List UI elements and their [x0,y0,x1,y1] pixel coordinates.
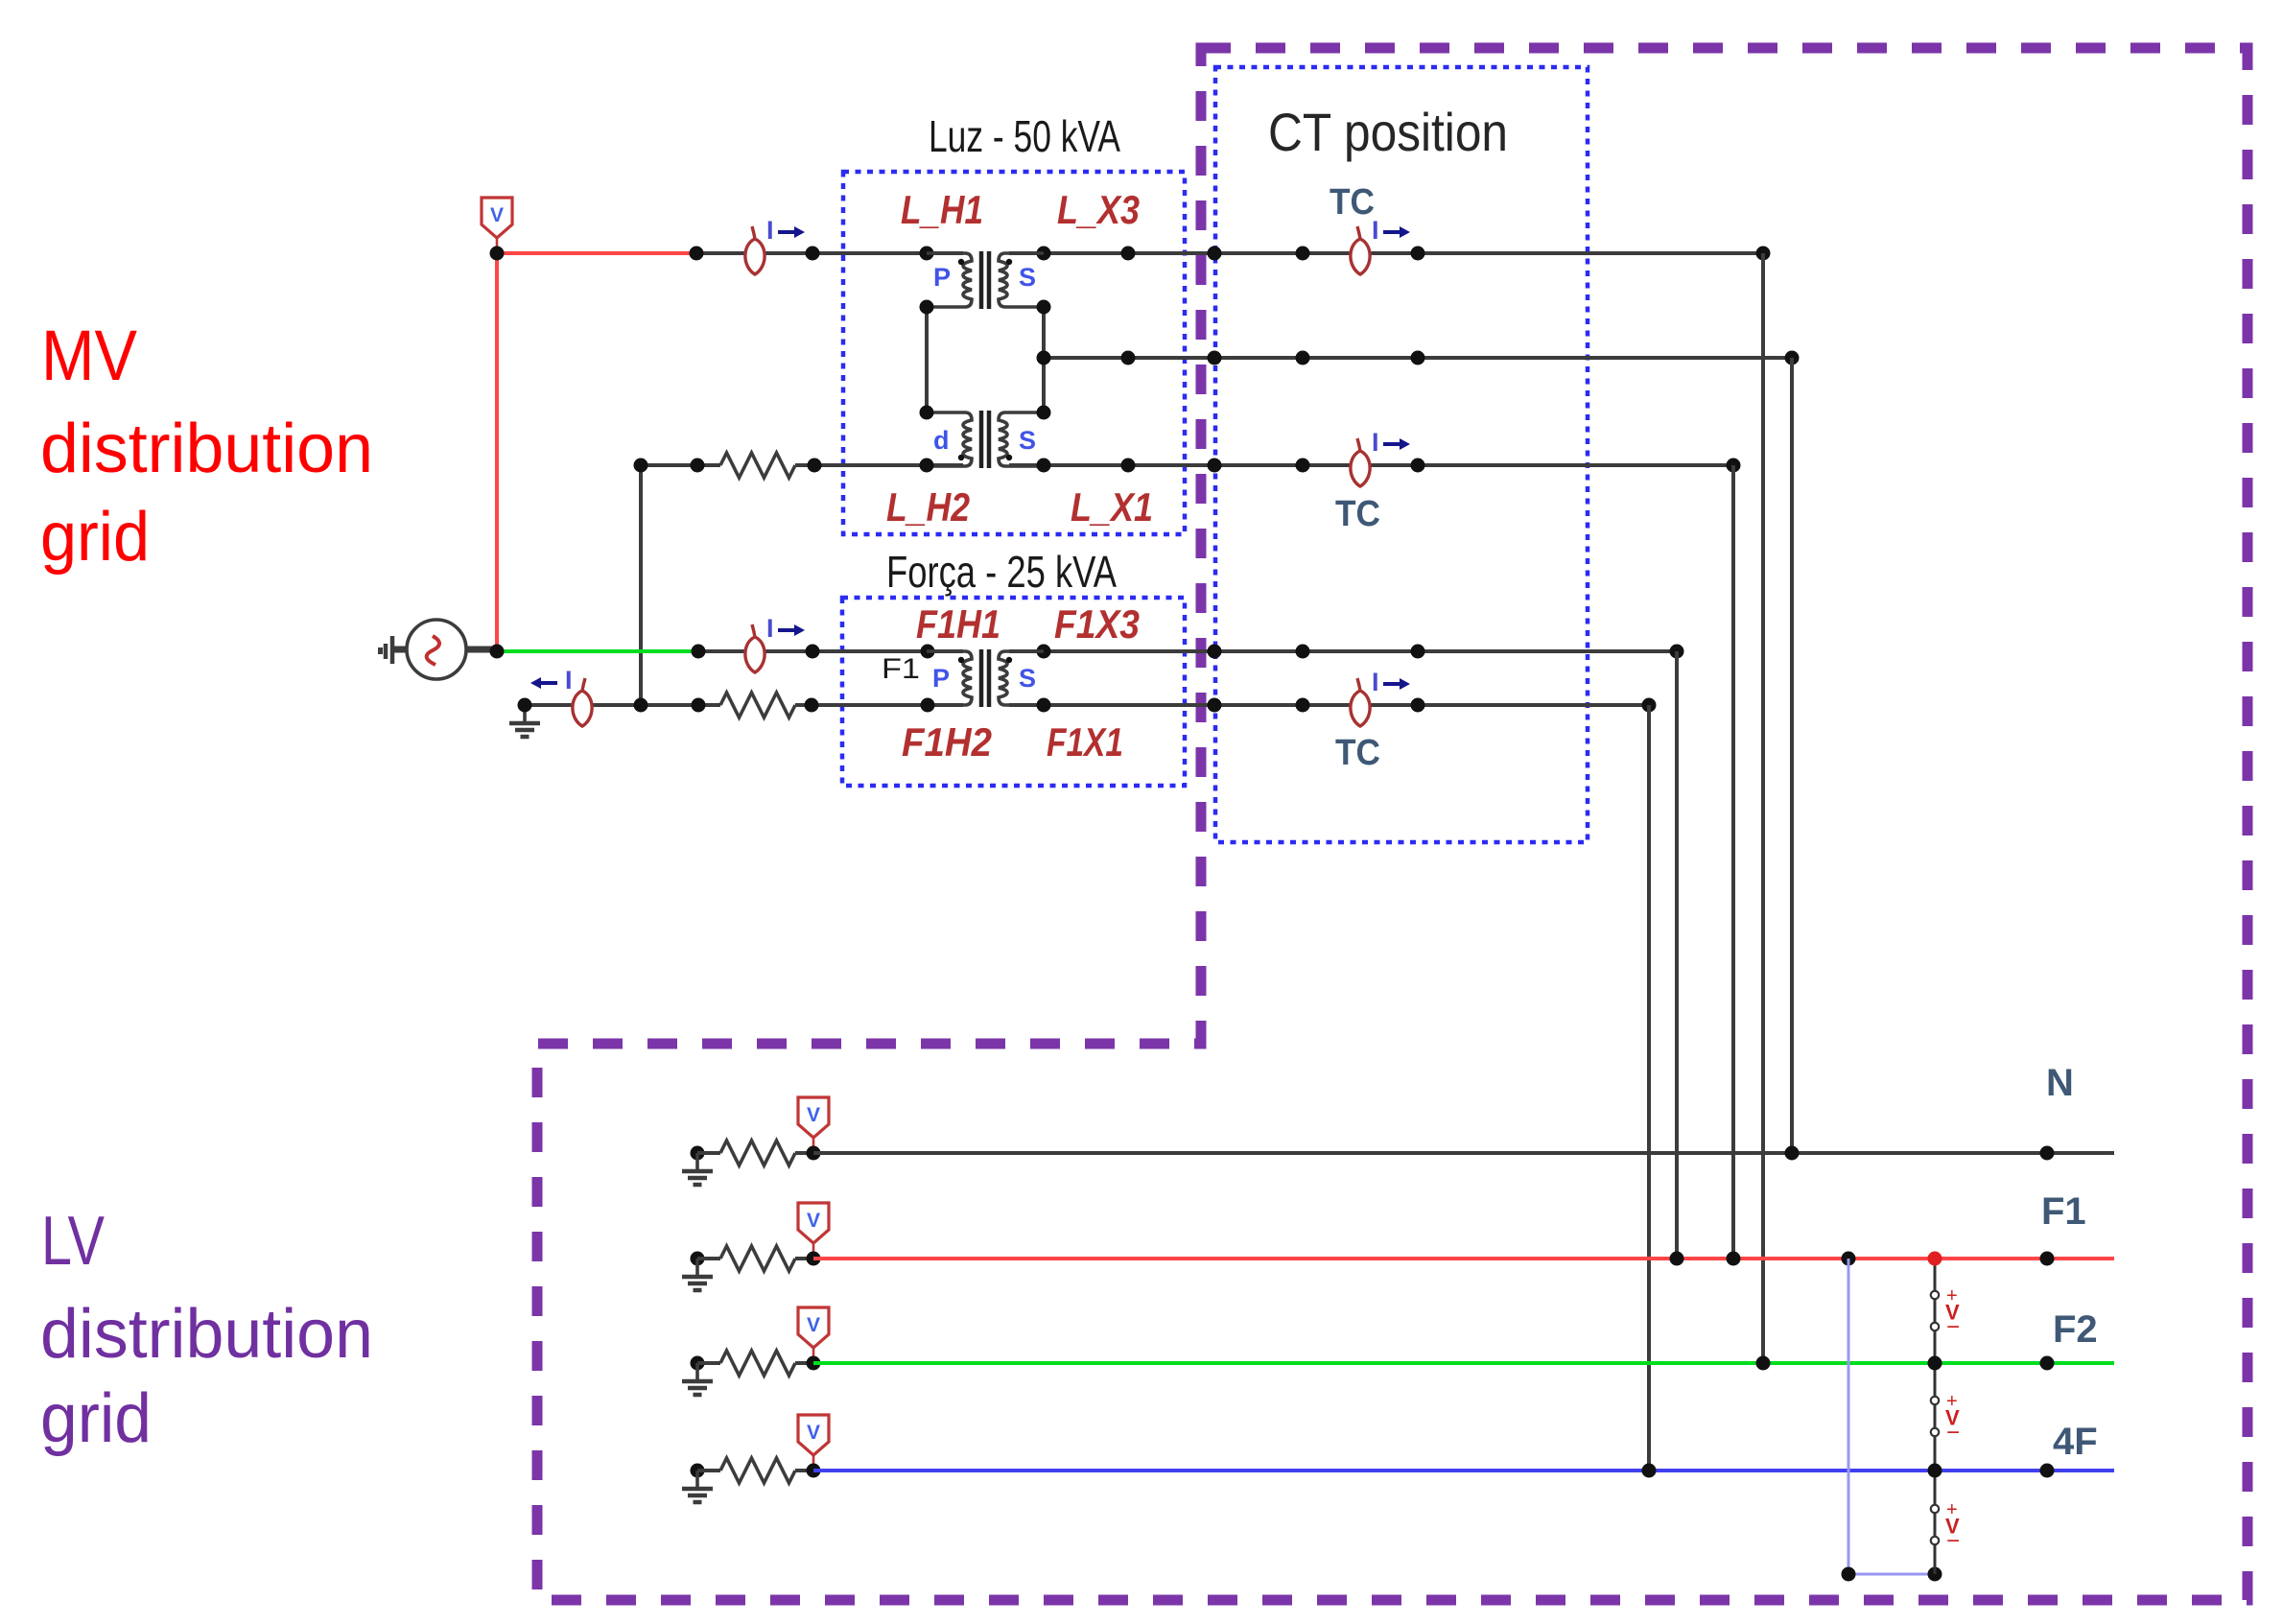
svg-text:L_H2: L_H2 [886,484,970,530]
svg-text:V: V [807,1314,820,1336]
svg-text:grid: grid [40,1380,152,1457]
svg-text:Luz - 50 kVA: Luz - 50 kVA [929,111,1120,161]
svg-text:L_H1: L_H1 [901,187,983,232]
svg-text:V: V [807,1104,820,1126]
svg-text:TC: TC [1330,182,1375,223]
svg-text:I: I [565,666,573,694]
svg-text:MV: MV [41,316,138,395]
svg-text:V: V [807,1422,820,1444]
svg-text:grid: grid [40,499,150,576]
svg-text:F1: F1 [2041,1190,2086,1233]
svg-text:−: − [1946,1528,1960,1554]
svg-text:F1H1: F1H1 [916,601,1000,647]
svg-text:V: V [490,204,504,226]
svg-text:S: S [1019,263,1036,292]
svg-text:F1: F1 [882,653,920,685]
svg-text:L_X1: L_X1 [1071,484,1153,530]
svg-text:CT position: CT position [1268,102,1508,162]
svg-text:F2: F2 [2053,1308,2098,1351]
svg-text:I: I [766,614,774,643]
svg-text:I: I [1372,428,1379,457]
svg-text:4F: 4F [2053,1421,2098,1463]
svg-text:V: V [807,1210,820,1232]
svg-text:P: P [933,263,951,292]
svg-text:d: d [933,426,950,455]
svg-text:−: − [1946,1420,1960,1446]
svg-text:L_X3: L_X3 [1057,187,1140,232]
svg-text:distribution: distribution [40,1296,373,1373]
svg-text:S: S [1019,426,1036,455]
svg-text:F1X3: F1X3 [1054,601,1140,647]
svg-text:TC: TC [1335,494,1380,534]
svg-text:F1X1: F1X1 [1047,719,1123,765]
svg-text:LV: LV [41,1203,105,1280]
svg-text:I: I [1372,668,1379,696]
svg-text:S: S [1019,664,1036,693]
svg-text:P: P [932,664,950,693]
svg-text:N: N [2046,1062,2074,1104]
svg-text:−: − [1946,1314,1960,1340]
svg-text:Força - 25 kVA: Força - 25 kVA [886,547,1117,597]
svg-text:distribution: distribution [40,411,373,487]
svg-text:TC: TC [1335,733,1380,773]
svg-text:F1H2: F1H2 [902,719,992,765]
svg-text:I: I [766,216,774,245]
